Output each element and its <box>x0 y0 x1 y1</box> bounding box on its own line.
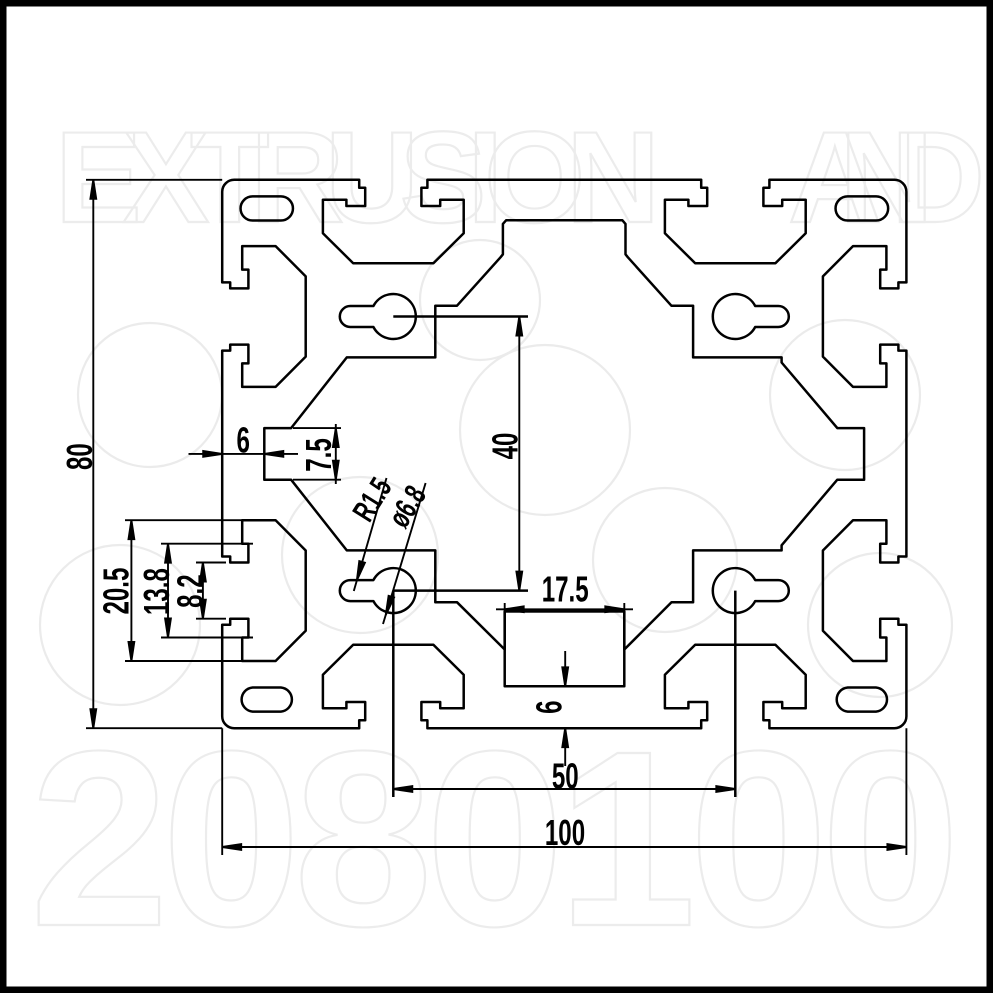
svg-text:80: 80 <box>60 443 100 470</box>
svg-text:40: 40 <box>486 433 526 460</box>
keyhole top-right <box>713 294 789 339</box>
svg-text:EXTRUSION: EXTRUSION <box>55 104 660 250</box>
dim 80 left <box>86 179 222 181</box>
dim 40 <box>393 315 528 318</box>
svg-text:AND: AND <box>788 104 985 250</box>
svg-text:7.5: 7.5 <box>299 438 339 472</box>
svg-text:17.5: 17.5 <box>542 570 589 610</box>
profile outer contour with 8 T-slots <box>222 180 906 728</box>
leader dia6.8 <box>383 483 426 624</box>
dim 100 bottom <box>221 728 223 855</box>
svg-text:6: 6 <box>530 700 570 713</box>
dim 6 bottom <box>564 651 566 686</box>
svg-text:2080100: 2080100 <box>30 699 960 978</box>
corner stadium hole BR <box>837 688 887 712</box>
dim 17.5 <box>504 603 506 612</box>
svg-text:6: 6 <box>236 421 249 461</box>
dim 20.5 <box>125 519 243 521</box>
dim 50 <box>392 591 395 797</box>
bottom center box channel <box>505 611 625 686</box>
dim 6 left <box>189 453 299 455</box>
dim 13.8 <box>161 543 253 545</box>
corner stadium hole TL <box>241 196 293 220</box>
keyhole bottom-right <box>713 568 789 613</box>
dim 7.5 <box>293 427 341 429</box>
keyhole bottom-left <box>340 568 416 613</box>
dim 8.2 <box>196 562 226 564</box>
svg-text:100: 100 <box>545 813 585 853</box>
corner stadium hole BL <box>242 688 292 712</box>
leader R1.5 <box>354 478 387 591</box>
central cavity <box>264 220 864 649</box>
svg-text:8.2: 8.2 <box>171 574 211 608</box>
keyhole top-left <box>340 294 416 339</box>
corner stadium hole TR <box>836 196 889 220</box>
svg-text:20.5: 20.5 <box>97 568 137 615</box>
